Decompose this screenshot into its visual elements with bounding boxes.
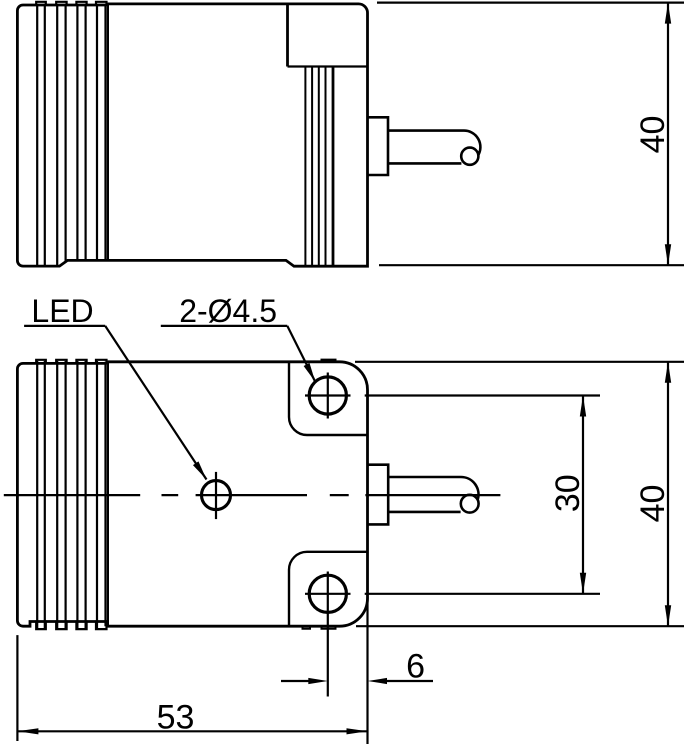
mounting ear top — [289, 362, 368, 435]
label 2-dia4.5 underline — [161, 325, 287, 327]
svg-text:2-Ø4.5: 2-Ø4.5 — [179, 293, 277, 329]
2-dia4.5 leader arrowhead — [304, 363, 319, 383]
mounting ear bottom — [289, 552, 368, 626]
front view rib feet bottom — [36, 620, 106, 629]
front view cable gland — [368, 465, 389, 525]
LED leader — [105, 326, 206, 480]
dimension 6 dimension lines — [281, 680, 433, 682]
front view top edge tab — [322, 360, 336, 362]
side view rib caps — [36, 2, 106, 6]
front view cable core — [461, 495, 479, 513]
LED hole — [202, 481, 231, 510]
svg-text:LED: LED — [31, 293, 93, 329]
dimension 30 arrowheads — [580, 396, 586, 417]
dimension 40 front view dimension line — [667, 362, 669, 626]
connector hatch lines — [305, 67, 325, 267]
LED leader arrowhead — [193, 461, 209, 481]
dimension 40 front view extension lines — [355, 362, 684, 626]
dimension 30 dimension line — [582, 396, 584, 594]
svg-text:53: 53 — [157, 699, 195, 737]
dimension 30 extension lines — [365, 396, 600, 594]
svg-text:6: 6 — [406, 647, 425, 685]
svg-text:30: 30 — [549, 474, 587, 512]
dimension 40 front view arrowheads — [665, 362, 671, 383]
svg-text:40: 40 — [634, 116, 672, 154]
front view rib lines — [37, 361, 105, 628]
side view body outline — [17, 4, 367, 266]
mounting hole top crosshair — [305, 373, 351, 419]
mounting hole bottom — [309, 575, 346, 612]
side view cable — [388, 131, 480, 164]
dimension 6 arrowheads — [308, 678, 328, 684]
side view cable gland — [368, 117, 389, 175]
dimension 6 extension line — [366, 597, 368, 744]
connector block — [286, 4, 289, 67]
2-dia4.5 leader — [287, 326, 315, 382]
dimension 40 side view arrowheads — [665, 3, 671, 24]
side view cable core — [461, 148, 478, 165]
mounting hole top — [309, 377, 346, 414]
dimension 53 dimension line — [17, 730, 367, 732]
dimension 53 arrowheads — [17, 728, 38, 734]
front view body outline — [17, 362, 367, 626]
mounting hole bottom crosshair — [305, 572, 351, 697]
LED hole crosshair — [215, 472, 217, 519]
front view cable — [388, 477, 478, 512]
dimension 40 side view extension lines — [377, 3, 684, 266]
dimension 53 extension line — [16, 635, 18, 741]
label LED underline — [24, 325, 105, 327]
front view face boundary line — [107, 362, 109, 626]
front view rib caps top — [36, 360, 106, 364]
centerline — [4, 494, 501, 496]
svg-text:40: 40 — [634, 485, 672, 523]
dimension 40 side view dimension line — [667, 3, 669, 266]
front view bottom edge tabs — [303, 626, 336, 629]
side view rib lines — [37, 4, 108, 266]
